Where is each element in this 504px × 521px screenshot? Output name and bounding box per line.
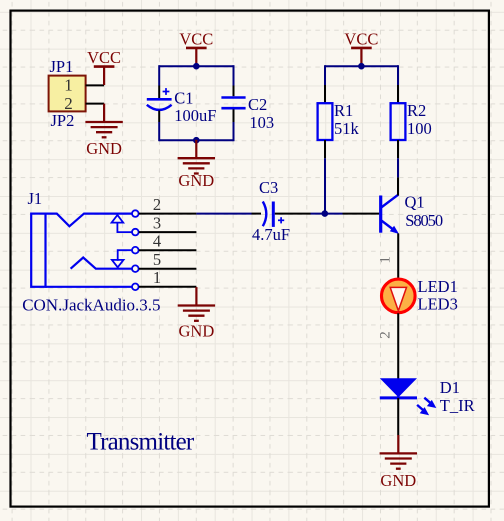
wire VCC top rail (C1-C2)	[159, 65, 233, 67]
pin terminal circle J1 pin 2	[132, 210, 139, 217]
svg-text:GND: GND	[86, 139, 122, 158]
transistor Q1 collector stroke	[382, 195, 399, 208]
pin emitter of Q1 / wire to LED1	[397, 233, 399, 278]
svg-text:VCC: VCC	[87, 48, 121, 67]
svg-text:1: 1	[64, 76, 73, 95]
svg-text:VCC: VCC	[179, 29, 213, 48]
wire J1 pin2 to C3	[196, 213, 251, 215]
wire R2 upper	[397, 65, 399, 85]
pin 1 of R2	[397, 85, 399, 103]
jack ring switch arrow (J1 pin 4 arm)	[112, 250, 132, 267]
pin 1 of J1	[139, 286, 197, 288]
ground GND symbol (at JP1 pin 2)	[85, 104, 122, 138]
pin 2 of C2	[233, 109, 235, 122]
wire R2 to collector	[397, 158, 399, 177]
svg-text:VCC: VCC	[344, 29, 378, 48]
svg-text:CON.JackAudio.3.5: CON.JackAudio.3.5	[22, 296, 160, 315]
resistor R1 body	[318, 103, 333, 140]
svg-text:T_IR: T_IR	[440, 396, 475, 415]
jack ring contact (J1)	[71, 258, 132, 269]
svg-text:C3: C3	[259, 178, 278, 197]
svg-text:Q1: Q1	[405, 193, 425, 212]
svg-text:51k: 51k	[334, 119, 360, 138]
LED LED1 body circle	[382, 279, 416, 313]
wire C1 upper	[158, 65, 160, 85]
pin terminal circle J1 pin 5	[132, 265, 139, 272]
pin 2 of R1	[324, 140, 326, 158]
pin 2 of JP1	[86, 103, 105, 105]
diode D1 cathode bar	[380, 396, 417, 399]
wire VCC top rail (R1-R2)	[325, 65, 398, 67]
pin terminal circle J1 pin 3	[132, 229, 139, 236]
svg-text:Transmitter: Transmitter	[87, 429, 195, 456]
pin terminal circle J1 pin 4	[132, 247, 139, 254]
capacitor C1 plates (polarized)	[147, 99, 172, 110]
svg-text:GND: GND	[380, 471, 416, 490]
svg-text:GND: GND	[179, 322, 215, 341]
capacitor C3 plates (polarized)	[263, 202, 274, 227]
svg-text:R2: R2	[407, 101, 426, 120]
connector J1 body rectangle	[31, 214, 45, 287]
pin 2 of C1	[158, 111, 160, 123]
wire R1 to base node	[324, 158, 326, 213]
pin 1 of C1	[158, 86, 160, 99]
wire GND bottom rail (C1-C2)	[159, 139, 233, 141]
svg-text:4.7uF: 4.7uF	[252, 225, 290, 244]
power VCC symbol (at JP1 pin 1)	[94, 67, 115, 85]
svg-text:R1: R1	[334, 101, 353, 120]
power VCC symbol (above R1-R2)	[351, 48, 372, 66]
svg-text:1: 1	[378, 256, 394, 264]
diode D1 triangle	[380, 378, 417, 397]
svg-text:100: 100	[407, 119, 432, 138]
pin 2 of C3	[275, 213, 311, 215]
plus sign of C3	[278, 217, 284, 223]
svg-text:D1: D1	[440, 378, 460, 397]
pin terminal circle J1 pin 1	[132, 284, 139, 291]
wire C2 upper	[233, 65, 235, 85]
junction VCC rail / R1-R2	[358, 63, 365, 70]
svg-text:LED3: LED3	[418, 294, 458, 313]
pin 1 of R1	[324, 85, 326, 103]
svg-text:4: 4	[153, 231, 161, 250]
junction GND rail / C1-C2	[193, 137, 200, 144]
wire C3 to base node	[311, 213, 343, 215]
wire C2 lower	[233, 122, 235, 141]
jack tip switch arrow (J1 pin 3 arm)	[112, 215, 132, 232]
svg-text:1: 1	[153, 268, 161, 287]
wire C1 lower	[158, 122, 160, 141]
svg-text:3: 3	[153, 213, 161, 232]
transistor Q1 base bar	[379, 196, 382, 233]
pin base of Q1	[343, 213, 380, 215]
jack sleeve contact (J1)	[46, 286, 132, 288]
pin collector of Q1	[397, 177, 399, 195]
ground GND symbol (at J1 pin 1)	[178, 287, 215, 321]
pin 2 of J1	[139, 213, 197, 215]
svg-text:2: 2	[153, 195, 161, 214]
pin 1 of JP1	[86, 84, 105, 86]
jack tip contact (J1)	[46, 214, 132, 227]
resistor R2 body	[391, 103, 406, 140]
plus sign of C1	[163, 88, 170, 95]
pin 5 of J1	[139, 268, 197, 270]
LED emission arrows (D1)	[417, 398, 436, 416]
svg-text:103: 103	[249, 113, 274, 132]
ground GND symbol (below D1)	[380, 435, 417, 469]
svg-text:100uF: 100uF	[174, 106, 216, 125]
pin 1 of C2	[233, 86, 235, 97]
connector JP1 body	[49, 76, 86, 112]
pin 3 of J1	[139, 231, 197, 233]
svg-text:J1: J1	[28, 189, 43, 208]
svg-text:JP2: JP2	[51, 111, 75, 130]
svg-text:GND: GND	[178, 171, 214, 190]
wire D1 to GND	[397, 398, 399, 435]
pin 2 of R2	[397, 140, 399, 158]
svg-text:LED1: LED1	[418, 277, 458, 296]
LED LED1 inner triangle	[390, 287, 406, 310]
svg-text:C2: C2	[248, 95, 267, 114]
pin 4 of J1	[139, 249, 197, 251]
junction VCC rail / C1-C2	[193, 63, 200, 70]
svg-text:C1: C1	[174, 89, 193, 108]
svg-text:2: 2	[378, 331, 394, 339]
capacitor C2 plates	[221, 98, 245, 109]
svg-text:JP1: JP1	[50, 57, 74, 76]
svg-text:5: 5	[153, 250, 161, 269]
power VCC symbol (above C1-C2)	[186, 48, 207, 66]
pin 1 of C3	[252, 213, 262, 215]
junction base node / R1-C3-Q1	[322, 210, 329, 217]
ground GND symbol (below C1-C2)	[178, 140, 215, 174]
wire LED1 to D1	[397, 313, 399, 398]
svg-text:S8050: S8050	[405, 211, 443, 230]
wire R1 upper	[324, 65, 326, 85]
transistor Q1 emitter stroke with arrow	[382, 221, 399, 234]
